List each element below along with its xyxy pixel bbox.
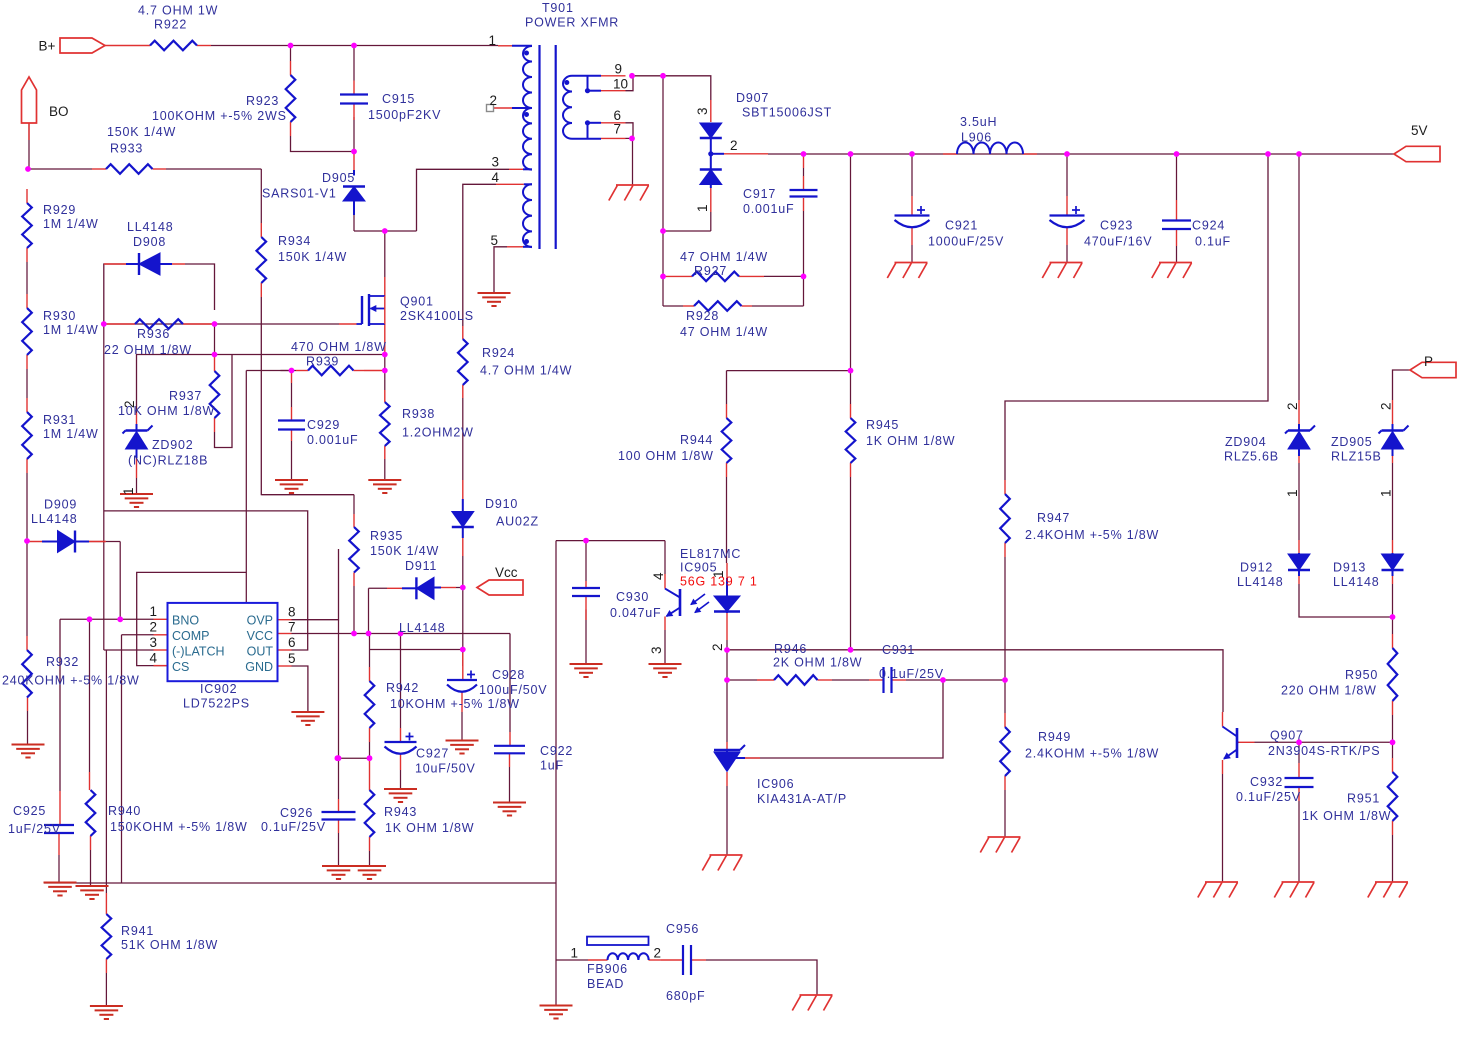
label R932 value bbox=[2, 674, 140, 688]
label R934 value bbox=[278, 250, 347, 264]
wire OVP to C926 column bbox=[338, 620, 340, 799]
zener ZD902 bbox=[123, 424, 153, 458]
svg-text:2: 2 bbox=[1285, 402, 1300, 410]
svg-text:10: 10 bbox=[613, 77, 628, 92]
label IC906 ref bbox=[757, 777, 794, 791]
ground R951 bbox=[1368, 882, 1408, 898]
wire xfmr 9-10 link bbox=[626, 76, 634, 91]
stub R951 bottom bbox=[1392, 821, 1394, 835]
label C931 value bbox=[879, 667, 944, 681]
ferrite bead FB906 body bbox=[587, 937, 649, 945]
wire R936 gate net bbox=[104, 323, 339, 325]
svg-text:9: 9 bbox=[614, 62, 622, 77]
stub D909 right bbox=[89, 541, 106, 543]
ground R940 bbox=[76, 886, 109, 899]
svg-text:D907: D907 bbox=[736, 91, 769, 105]
node Q901 source bbox=[382, 352, 388, 358]
svg-text:1uF/25V: 1uF/25V bbox=[8, 822, 61, 836]
label R930 ref bbox=[43, 309, 76, 323]
transformer T901 polarity dots bbox=[524, 51, 590, 245]
svg-text:2: 2 bbox=[653, 946, 661, 961]
svg-text:C922: C922 bbox=[540, 744, 573, 758]
svg-text:LL4148: LL4148 bbox=[1333, 575, 1380, 589]
pin 1 IC905 bbox=[711, 570, 726, 578]
label C956 value bbox=[666, 989, 705, 1003]
wire R935 bottom bbox=[353, 586, 355, 634]
label R950 value bbox=[1281, 684, 1377, 698]
svg-text:C926: C926 bbox=[280, 806, 313, 820]
node C926 top bbox=[336, 755, 342, 761]
stub xfmr pin5 bbox=[507, 246, 523, 248]
stub ZD905 bottom bbox=[1392, 449, 1394, 463]
label C917 ref bbox=[743, 187, 776, 201]
wire R937 bottom loop bbox=[215, 355, 233, 448]
pin 6 IC902 bbox=[288, 635, 296, 650]
stub D913 top bbox=[1392, 540, 1394, 553]
node LED cathode row bbox=[724, 647, 730, 653]
svg-text:ZD902: ZD902 bbox=[152, 438, 194, 452]
svg-text:R939: R939 bbox=[306, 355, 339, 369]
stub R931 bottom bbox=[26, 459, 28, 473]
stub xfmr pin1 bbox=[498, 45, 512, 47]
label C956 ref bbox=[666, 922, 699, 936]
resistor R941 bbox=[102, 914, 112, 959]
label R922 value bbox=[138, 4, 218, 18]
wire pin8 OVP column bbox=[292, 549, 339, 620]
stub R950 top bbox=[1392, 634, 1394, 648]
label EL817MC bbox=[680, 547, 741, 561]
wire R951 bottom bbox=[1392, 835, 1394, 882]
stub R949 top bbox=[1004, 713, 1006, 727]
label C921 value bbox=[928, 235, 1004, 249]
svg-text:1K OHM 1/8W: 1K OHM 1/8W bbox=[385, 821, 474, 835]
svg-text:(-)LATCH: (-)LATCH bbox=[172, 645, 225, 659]
stub xfmr pin9 bbox=[601, 75, 626, 77]
stub C917 top bbox=[803, 154, 805, 168]
wire D908/R936 column down bbox=[103, 324, 105, 650]
stub LED bottom bbox=[726, 613, 728, 640]
svg-text:1M 1/4W: 1M 1/4W bbox=[43, 323, 99, 337]
resistor R943 bbox=[365, 790, 375, 837]
wire R940 column bbox=[89, 619, 91, 772]
label R945 ref bbox=[866, 418, 899, 432]
label C925 value bbox=[8, 822, 61, 836]
svg-text:C929: C929 bbox=[307, 418, 340, 432]
label ZD904 ref bbox=[1225, 435, 1267, 449]
label C932 ref bbox=[1250, 775, 1283, 789]
resistor R924 bbox=[458, 339, 468, 385]
stub C928 bottom bbox=[461, 692, 463, 712]
label R927 ref bbox=[694, 264, 727, 278]
stub R943 top bbox=[369, 758, 371, 790]
wire R927 right bbox=[752, 276, 804, 306]
wire C929 column bbox=[291, 383, 293, 480]
wire pin1 to C925 column bbox=[59, 619, 61, 791]
label R931 ref bbox=[43, 413, 76, 427]
capacitor C956 bbox=[683, 945, 691, 975]
label D910 value bbox=[496, 515, 539, 529]
svg-text:FB906: FB906 bbox=[587, 962, 628, 976]
label R941 value bbox=[121, 938, 218, 952]
wire C915 column bbox=[353, 48, 355, 152]
svg-text:470uF/16V: 470uF/16V bbox=[1084, 235, 1152, 249]
stub C926 bottom bbox=[338, 820, 340, 834]
svg-text:2.4KOHM +-5% 1/8W: 2.4KOHM +-5% 1/8W bbox=[1025, 747, 1159, 761]
svg-text:C956: C956 bbox=[666, 922, 699, 936]
stub R928 right bbox=[742, 305, 753, 307]
stub R945 top bbox=[850, 404, 852, 418]
stub D905 top bbox=[353, 152, 355, 170]
port BO bbox=[22, 77, 37, 123]
stub ZD902 bottom bbox=[136, 456, 138, 478]
wire R927 left bbox=[663, 231, 683, 306]
svg-text:220 OHM 1/8W: 220 OHM 1/8W bbox=[1281, 684, 1377, 698]
label R949 value bbox=[1025, 747, 1159, 761]
stub C917 bottom bbox=[803, 198, 805, 211]
svg-text:LL4148: LL4148 bbox=[1237, 575, 1284, 589]
resistor R945 bbox=[846, 418, 856, 463]
pin 3 xfmr bbox=[491, 155, 499, 170]
label R941 ref bbox=[121, 924, 154, 938]
svg-text:D908: D908 bbox=[133, 235, 166, 249]
ground R938 bbox=[368, 480, 401, 493]
stub ZD904 bottom bbox=[1298, 449, 1300, 463]
svg-text:1: 1 bbox=[488, 33, 496, 48]
wire D912 to merge bbox=[1299, 584, 1393, 617]
wire D908 loop left bbox=[104, 264, 126, 324]
svg-text:R943: R943 bbox=[384, 805, 417, 819]
stub R949 bottom bbox=[1004, 776, 1006, 790]
svg-text:(NC)RLZ18B: (NC)RLZ18B bbox=[128, 454, 208, 468]
ground C932 bbox=[1274, 882, 1314, 898]
stub C932 top bbox=[1298, 763, 1300, 778]
label 56G marking bbox=[680, 575, 758, 589]
label IC906 value bbox=[757, 792, 847, 806]
wire R951 top bbox=[1392, 742, 1394, 758]
transformer T901 primary winding 4-5 bbox=[523, 184, 532, 247]
svg-text:R949: R949 bbox=[1038, 730, 1071, 744]
ground ZD902 bbox=[120, 494, 153, 507]
svg-text:R936: R936 bbox=[137, 327, 170, 341]
wire B+ net bbox=[211, 45, 498, 47]
stub Q907 emitter bbox=[1222, 760, 1224, 774]
svg-text:R946: R946 bbox=[774, 642, 807, 656]
svg-text:Q907: Q907 bbox=[1270, 729, 1304, 743]
optocoupler IC905 LED bbox=[714, 578, 740, 613]
label D909 value bbox=[31, 512, 78, 526]
ground IC906 bbox=[702, 855, 742, 871]
wire R950 bottom bbox=[1392, 715, 1394, 742]
svg-text:2: 2 bbox=[730, 138, 738, 153]
stub R933 right bbox=[153, 168, 167, 170]
capacitor C929 bbox=[278, 421, 305, 430]
svg-text:1M 1/4W: 1M 1/4W bbox=[43, 427, 99, 441]
wire R943 bottom bbox=[369, 851, 371, 866]
label R924 value bbox=[480, 364, 572, 378]
svg-text:IC906: IC906 bbox=[757, 777, 794, 791]
svg-text:0.001uF: 0.001uF bbox=[307, 433, 358, 447]
pin name LATCH bbox=[172, 645, 225, 659]
node C930 top bbox=[583, 538, 589, 544]
node R939/R938 bbox=[382, 368, 388, 374]
stub R946 left bbox=[757, 679, 774, 681]
label D908 ref bbox=[133, 235, 166, 249]
svg-text:8: 8 bbox=[288, 605, 296, 620]
label C925 ref bbox=[13, 804, 46, 818]
wire pin1 BNO row bbox=[60, 618, 154, 620]
stub C929 up2 bbox=[291, 407, 293, 421]
ground C930 bbox=[570, 664, 603, 677]
node R936/R937 bbox=[212, 321, 218, 327]
pin 4 IC905 bbox=[651, 572, 666, 580]
wire xfmr pin7 to ground bbox=[632, 138, 634, 184]
resistor R946 bbox=[774, 675, 818, 685]
capacitor C921 bbox=[895, 206, 930, 227]
svg-text:C923: C923 bbox=[1100, 219, 1133, 233]
wire D905 anode to Q901 drain node bbox=[354, 215, 417, 231]
ground C926 bbox=[322, 866, 355, 879]
wire D909 right segment bbox=[89, 541, 120, 543]
label FB906 value bbox=[587, 977, 624, 991]
optocoupler IC905 phototransistor bbox=[665, 589, 680, 617]
label C932 value bbox=[1236, 790, 1301, 804]
stub B+ to R922 bbox=[105, 45, 150, 47]
pin 7 xfmr bbox=[613, 122, 621, 137]
wire ZD902 branch bbox=[137, 355, 215, 414]
stub xfmr pin6 bbox=[601, 122, 626, 124]
transformer T901 tap pin6 bbox=[588, 123, 602, 139]
label C923 value bbox=[1084, 235, 1152, 249]
svg-text:7: 7 bbox=[613, 122, 621, 137]
label C927 ref bbox=[416, 747, 449, 761]
stub C923 bottom bbox=[1066, 228, 1068, 245]
wire merge to R950 bbox=[1392, 617, 1394, 634]
svg-text:R935: R935 bbox=[370, 529, 403, 543]
node C931/ref bbox=[940, 677, 946, 683]
stub FB906 right bbox=[649, 959, 662, 961]
wire R942 bottom to node bbox=[369, 742, 371, 758]
svg-text:150K 1/4W: 150K 1/4W bbox=[107, 125, 176, 139]
stub D912 top bbox=[1298, 540, 1300, 553]
stub xfmr pin2 bbox=[494, 107, 513, 109]
wire Q901 source to R938 bbox=[384, 355, 386, 371]
node VCC/R935 bbox=[351, 631, 357, 637]
wire C930 top row bbox=[556, 540, 665, 542]
svg-text:OVP: OVP bbox=[247, 614, 273, 628]
svg-text:4.7 OHM 1W: 4.7 OHM 1W bbox=[138, 4, 218, 18]
capacitor C924 bbox=[1162, 221, 1191, 230]
label C922 value bbox=[540, 759, 564, 773]
svg-text:Vcc: Vcc bbox=[495, 565, 518, 580]
wire y494 row to R935 bbox=[261, 494, 354, 496]
stub R930 top bbox=[26, 294, 28, 308]
pin 2 D907 bbox=[730, 138, 738, 153]
wire FB906 row left bbox=[556, 959, 588, 961]
wire C931 right bbox=[906, 679, 943, 681]
node D912/D913 merge bbox=[1390, 614, 1396, 620]
node xfmr pin7 bbox=[629, 136, 635, 142]
wire C956 to ground bbox=[706, 960, 817, 995]
wire left column R930-R931 bbox=[26, 369, 28, 398]
wire xfmr pin3 link bbox=[417, 169, 510, 231]
stub opto emitter bbox=[664, 617, 666, 631]
stub C921 bottom bbox=[911, 228, 913, 245]
wire pin3 LATCH row bbox=[104, 649, 154, 651]
ground C922 bbox=[493, 803, 526, 816]
ground C925 bbox=[44, 883, 77, 896]
pin 4 IC902 bbox=[149, 651, 157, 666]
label T901 value bbox=[525, 16, 619, 30]
stub C930 bottom bbox=[585, 596, 587, 620]
wire pin4 CS loop bbox=[137, 572, 247, 665]
label R933 ref bbox=[110, 142, 143, 156]
stub R935 bottom bbox=[353, 573, 355, 587]
svg-text:C924: C924 bbox=[1192, 219, 1225, 233]
resistor R940 bbox=[86, 790, 96, 836]
dual diode D907 bottom half bbox=[700, 154, 724, 188]
stub C917 up2 bbox=[803, 176, 805, 190]
wire R944 to LED bbox=[726, 477, 728, 563]
wire opto2 to R946 node bbox=[726, 650, 728, 680]
wire D911 anode to Vcc node bbox=[456, 587, 463, 589]
capacitor C915 bbox=[340, 95, 368, 104]
svg-text:SARS01-V1: SARS01-V1 bbox=[262, 187, 337, 201]
label D909 ref bbox=[44, 498, 77, 512]
svg-text:100uF/50V: 100uF/50V bbox=[479, 683, 547, 697]
resistor R923 bbox=[286, 75, 296, 122]
wire R946 to C931 bbox=[832, 679, 869, 681]
label Q901 ref bbox=[400, 295, 434, 309]
label C929 value bbox=[307, 433, 358, 447]
capacitor C931 bbox=[884, 667, 892, 693]
label C931 ref bbox=[882, 643, 915, 657]
stub R942 bottom bbox=[369, 728, 371, 742]
label Q901 value bbox=[400, 309, 474, 323]
node B+/R923 bbox=[288, 43, 294, 49]
wire pin2 column to rail bbox=[121, 635, 123, 883]
wire ZD902 to ground bbox=[136, 478, 138, 494]
wire TL431 bottom to ground bbox=[726, 786, 728, 855]
label D905 value bbox=[262, 187, 337, 201]
stub R950 bottom bbox=[1392, 701, 1394, 715]
pin 2 ZD904 bbox=[1285, 402, 1300, 410]
stub R939 right bbox=[354, 370, 365, 372]
wire D913 to merge bbox=[1392, 584, 1394, 617]
ground IC902 GND bbox=[291, 712, 324, 725]
wire R949 top bbox=[1004, 680, 1006, 713]
svg-text:C930: C930 bbox=[616, 590, 649, 604]
svg-text:470 OHM 1/8W: 470 OHM 1/8W bbox=[291, 340, 387, 354]
wire xfmr pin7 node bbox=[626, 137, 633, 139]
label R933 value bbox=[107, 125, 176, 139]
stub C927 top bbox=[400, 728, 402, 742]
node BO/R933 bbox=[25, 166, 31, 172]
wire sec left column bbox=[662, 76, 664, 231]
wire D911 row left bbox=[369, 588, 388, 602]
capacitor C926 bbox=[322, 812, 356, 820]
stub D909 left bbox=[29, 541, 46, 543]
label R934 ref bbox=[278, 234, 311, 248]
svg-text:D910: D910 bbox=[485, 497, 518, 511]
wire C932 bottom bbox=[1298, 801, 1300, 882]
stub R924 bottom bbox=[462, 385, 464, 398]
stub C928 top bbox=[462, 653, 464, 680]
stub R937 top bbox=[214, 357, 216, 371]
stub R938 bottom bbox=[384, 446, 386, 459]
svg-text:R945: R945 bbox=[866, 418, 899, 432]
svg-text:1: 1 bbox=[711, 570, 726, 578]
pin 2 xfmr bbox=[489, 93, 497, 108]
svg-text:L906: L906 bbox=[961, 131, 992, 145]
svg-text:LL4148: LL4148 bbox=[399, 621, 446, 635]
svg-text:COMP: COMP bbox=[172, 629, 210, 643]
stub Q901 drain bbox=[384, 277, 386, 296]
stub C930 top bbox=[585, 581, 587, 588]
wire R944 row bbox=[727, 370, 851, 372]
wire y758 row bbox=[337, 757, 369, 759]
diode D911 bbox=[402, 577, 441, 599]
label R931 value bbox=[43, 427, 99, 441]
stub C931 left bbox=[869, 679, 884, 681]
stub R935 top bbox=[353, 514, 355, 527]
node B+/C915 bbox=[351, 43, 357, 49]
stub R946 right bbox=[818, 679, 833, 681]
svg-text:R944: R944 bbox=[680, 433, 713, 447]
label R938 value bbox=[402, 426, 474, 440]
svg-text:1: 1 bbox=[1285, 489, 1300, 497]
svg-text:0.1uF/25V: 0.1uF/25V bbox=[1236, 790, 1301, 804]
resistor R942 bbox=[365, 681, 375, 728]
stub R927 left bbox=[664, 275, 692, 277]
stub IC pin8 bbox=[278, 619, 292, 621]
stub R938 top bbox=[384, 390, 386, 402]
stub R932 bottom bbox=[27, 698, 29, 712]
stub IC pin1 bbox=[154, 618, 168, 620]
wire 5V rail bbox=[804, 153, 1395, 155]
pin name CS bbox=[172, 660, 189, 674]
wire C924 column bbox=[1176, 154, 1178, 262]
stub D908 left bbox=[104, 263, 126, 265]
pin 2 FB906 bbox=[653, 946, 661, 961]
stub C929 bottom bbox=[291, 430, 293, 442]
label D905 ref bbox=[322, 171, 355, 185]
wire LED cathode to row bbox=[726, 640, 728, 650]
stub R941 top bbox=[105, 893, 107, 914]
svg-text:3: 3 bbox=[695, 107, 710, 115]
svg-text:4: 4 bbox=[491, 170, 499, 185]
svg-text:ZD905: ZD905 bbox=[1331, 435, 1373, 449]
svg-text:51K OHM 1/8W: 51K OHM 1/8W bbox=[121, 938, 218, 952]
svg-text:BNO: BNO bbox=[172, 614, 199, 628]
wire left column D909-R932 bbox=[26, 541, 28, 636]
svg-text:POWER XFMR: POWER XFMR bbox=[525, 16, 619, 30]
label R937 value bbox=[118, 404, 215, 418]
label IC905 ref bbox=[680, 561, 717, 575]
capacitor C932 bbox=[1285, 778, 1314, 787]
label R939 ref bbox=[306, 355, 339, 369]
resistor R933 bbox=[106, 164, 153, 174]
stub R944 top bbox=[726, 404, 728, 418]
svg-text:0.047uF: 0.047uF bbox=[610, 606, 661, 620]
svg-text:P: P bbox=[1424, 354, 1433, 369]
stub IC pin5 bbox=[278, 665, 292, 667]
wire C925 to ground bbox=[58, 855, 60, 883]
label R946 ref bbox=[774, 642, 807, 656]
stub C956 right bbox=[691, 959, 706, 961]
svg-text:R929: R929 bbox=[43, 203, 76, 217]
label R936 ref bbox=[137, 327, 170, 341]
svg-text:D913: D913 bbox=[1333, 561, 1366, 575]
